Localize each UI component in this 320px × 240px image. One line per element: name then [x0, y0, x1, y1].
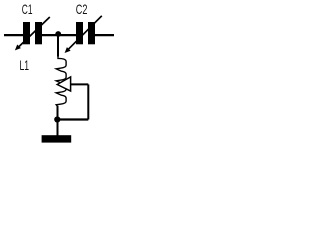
wire node to L1	[57, 35, 59, 57]
capacitor C2 plates	[76, 22, 95, 44]
svg-text:C2: C2	[76, 2, 88, 17]
wire tap to right	[71, 83, 89, 85]
L1 tap wiper arrow	[57, 77, 70, 91]
wire right lead from C2	[95, 34, 115, 36]
wire coil bottom to ground	[57, 106, 59, 136]
ground	[42, 135, 72, 142]
capacitor C2 variable arrow	[65, 16, 102, 53]
node top junction	[55, 31, 61, 37]
capacitor C1 plates	[23, 22, 42, 44]
wire left lead to C1	[4, 34, 24, 36]
node bottom junction	[54, 116, 60, 122]
svg-text:C1: C1	[22, 2, 33, 17]
wire C1 to C2	[42, 34, 77, 36]
wire bottom return to coil bottom	[57, 118, 88, 120]
wire right vertical down	[87, 84, 89, 119]
inductor L1 coil	[56, 56, 66, 107]
capacitor C1 variable arrow	[15, 17, 50, 50]
svg-text:L1: L1	[20, 58, 30, 73]
